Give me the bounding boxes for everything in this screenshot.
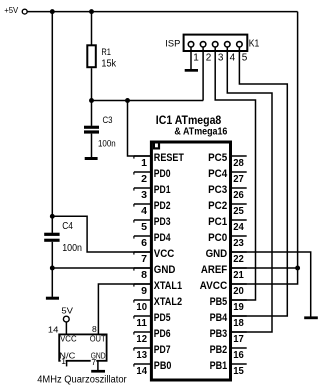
- connector K1 ISP box: [184, 35, 248, 51]
- svg-text:21: 21: [233, 270, 244, 281]
- svg-text:3: 3: [141, 190, 147, 201]
- svg-text:8: 8: [92, 324, 97, 334]
- svg-text:6: 6: [141, 238, 147, 249]
- svg-text:PC2: PC2: [208, 200, 227, 212]
- svg-text:OUT: OUT: [90, 334, 106, 343]
- label oscillator pin 7: [91, 359, 97, 365]
- svg-text:1: 1: [141, 158, 147, 169]
- svg-text:C3: C3: [103, 115, 113, 126]
- node +5V / left drop junction: [50, 9, 55, 14]
- svg-text:XTAL1: XTAL1: [154, 280, 182, 292]
- node R1 / C3 junction: [89, 98, 94, 103]
- svg-text:VCC: VCC: [154, 248, 175, 260]
- svg-text:4MHz Quarzoszillator: 4MHz Quarzoszillator: [37, 375, 127, 386]
- wire GND pin 22 to ground: [232, 252, 311, 317]
- svg-text:10: 10: [136, 302, 147, 313]
- node GND row junction: [50, 266, 55, 271]
- svg-text:15: 15: [233, 366, 244, 377]
- svg-text:PB1: PB1: [210, 360, 228, 372]
- node +5V / R1 junction: [89, 9, 94, 14]
- pin 21 AREF stub: [232, 267, 247, 269]
- ground bar right: [304, 316, 318, 319]
- svg-text:16: 16: [233, 350, 244, 361]
- svg-text:PD2: PD2: [154, 200, 171, 212]
- pin 25 PC2 stub: [232, 203, 247, 205]
- svg-text:PD6: PD6: [154, 328, 171, 340]
- wire +5V top rail: [27, 11, 297, 13]
- svg-text:1: 1: [61, 356, 66, 366]
- svg-text:PC3: PC3: [208, 184, 227, 196]
- wire VCC tap to pin 7: [52, 216, 150, 252]
- wire oscillator OUT pin 8 to XTAL1 pin 9: [98, 284, 150, 334]
- svg-text:C4: C4: [62, 221, 73, 232]
- svg-text:+5V: +5V: [4, 5, 18, 15]
- svg-text:XTAL2: XTAL2: [154, 296, 182, 308]
- node VCC tap junction: [50, 214, 55, 219]
- svg-text:28: 28: [233, 158, 244, 169]
- svg-text:22: 22: [233, 254, 244, 265]
- svg-text:26: 26: [233, 190, 244, 201]
- ground bar below C3: [85, 157, 98, 160]
- svg-text:AVCC: AVCC: [200, 280, 228, 292]
- ground bar oscillator: [91, 370, 105, 373]
- wire reset drop to pin 1: [128, 101, 151, 157]
- wire AREF pin 21 row: [232, 267, 298, 269]
- pin 16 PB2 stub: [232, 347, 247, 349]
- wire ISP pin 2 reset: [202, 47, 204, 100]
- svg-text:GND: GND: [154, 264, 176, 276]
- wire ISP pin 5 MISO to PB4 pin 18: [232, 47, 287, 316]
- svg-text:14: 14: [48, 324, 59, 334]
- svg-text:7: 7: [91, 357, 96, 367]
- svg-text:19: 19: [233, 302, 244, 313]
- pin 18 PB4 stub: [232, 315, 247, 317]
- IC IC1 ATmega8 body: [151, 142, 230, 380]
- svg-text:18: 18: [233, 318, 244, 329]
- wire +5V left drop: [51, 12, 53, 233]
- svg-text:12: 12: [136, 334, 147, 345]
- pin 2 PD0 stub: [134, 171, 150, 173]
- svg-text:20: 20: [233, 286, 244, 297]
- wire ISP pin 3 SCK to PB5 pin 19: [215, 47, 255, 300]
- svg-text:3: 3: [218, 53, 224, 64]
- wire R1 bottom: [91, 68, 93, 100]
- pin 23 PC0 stub: [232, 235, 247, 237]
- svg-text:5: 5: [141, 222, 147, 233]
- pin 3 PD1 stub: [134, 187, 150, 189]
- svg-text:1: 1: [193, 53, 199, 64]
- svg-text:13: 13: [136, 350, 147, 361]
- svg-text:& ATmega16: & ATmega16: [174, 126, 227, 138]
- svg-text:PD5: PD5: [154, 312, 171, 324]
- svg-text:7: 7: [141, 254, 147, 265]
- svg-text:GND: GND: [206, 248, 228, 260]
- connector K1 pin 2 circle: [200, 42, 206, 48]
- wire oscillator N/C stub pin 1: [66, 362, 68, 367]
- svg-text:RESET: RESET: [154, 152, 184, 164]
- pin 15 PB1 stub: [232, 363, 247, 365]
- svg-text:PD7: PD7: [154, 344, 171, 356]
- svg-text:24: 24: [233, 222, 244, 233]
- svg-text:5V: 5V: [61, 305, 73, 315]
- capacitor C4: [44, 233, 59, 242]
- svg-text:25: 25: [233, 206, 244, 217]
- svg-text:PD0: PD0: [154, 168, 171, 180]
- pin 13 PD7 stub: [134, 347, 150, 349]
- svg-text:PC5: PC5: [208, 152, 227, 164]
- svg-text:5: 5: [242, 53, 248, 64]
- wire C3 bottom: [91, 134, 93, 158]
- svg-text:15k: 15k: [101, 59, 117, 70]
- svg-text:2: 2: [206, 53, 212, 64]
- pin 10 XTAL2 stub: [134, 299, 150, 301]
- ground bar below C4: [46, 297, 59, 300]
- pin 17 PB3 stub: [232, 331, 247, 333]
- pin 26 PC3 stub: [232, 187, 247, 189]
- wire ISP pin 4 MOSI to PB3 pin 17: [227, 47, 272, 332]
- svg-text:PB0: PB0: [154, 360, 172, 372]
- wire oscillator GND pin 7: [97, 362, 99, 371]
- svg-text:PC4: PC4: [208, 168, 228, 180]
- svg-text:PC0: PC0: [208, 232, 227, 244]
- svg-text:9: 9: [141, 286, 147, 297]
- svg-text:27: 27: [233, 174, 244, 185]
- svg-text:11: 11: [136, 318, 147, 329]
- wire C4 bottom: [51, 242, 53, 297]
- svg-text:AREF: AREF: [201, 264, 228, 276]
- pin 12 PD6 stub: [134, 331, 150, 333]
- svg-text:100n: 100n: [98, 139, 116, 150]
- +5V terminal circle: [22, 9, 27, 14]
- svg-text:PD1: PD1: [154, 184, 171, 196]
- pin 8 GND stub: [134, 267, 150, 269]
- pin 9 XTAL1 stub: [134, 283, 150, 285]
- svg-text:PC1: PC1: [208, 216, 227, 228]
- svg-text:PD4: PD4: [154, 232, 171, 244]
- wire GND row to pin 8: [52, 267, 150, 269]
- wire reset rail: [92, 100, 204, 102]
- pin 27 PC4 stub: [232, 171, 247, 173]
- ground bar ISP pin 1: [185, 69, 198, 72]
- pin 20 AVCC stub: [232, 283, 247, 285]
- svg-text:R1: R1: [101, 47, 111, 58]
- pin 11 PD5 stub: [134, 315, 150, 317]
- pin 14 PB0 stub: [134, 363, 150, 365]
- pin 24 PC1 stub: [232, 219, 247, 221]
- label oscillator pin 1: [61, 359, 66, 364]
- connector K1 pin 1 circle: [188, 42, 194, 48]
- svg-text:PD3: PD3: [154, 216, 171, 228]
- pin 22 GND stub: [232, 251, 247, 253]
- wire ISP pin 1 to ground: [190, 47, 192, 69]
- pin 1 RESET stub: [134, 155, 150, 157]
- wire +5V right bus to AVCC pin 20: [232, 12, 298, 284]
- svg-text:100n: 100n: [62, 243, 82, 254]
- capacitor C3: [84, 126, 99, 134]
- pin 6 PD4 stub: [134, 235, 150, 237]
- pin 7 VCC stub: [134, 251, 150, 253]
- svg-text:23: 23: [233, 238, 244, 249]
- svg-text:PB3: PB3: [210, 328, 228, 340]
- node AREF / +5V bus junction: [295, 266, 300, 271]
- svg-text:17: 17: [233, 334, 244, 345]
- svg-text:PB5: PB5: [210, 296, 228, 308]
- pin 19 PB5 stub: [232, 299, 247, 301]
- terminal circle oscillator 5V: [63, 316, 69, 322]
- wire oscillator VCC pin 14: [65, 322, 67, 334]
- connector K1 pin 5 circle: [237, 42, 243, 48]
- pin 4 PD2 stub: [134, 203, 150, 205]
- svg-text:4: 4: [230, 53, 236, 64]
- svg-text:K1: K1: [249, 37, 260, 49]
- svg-text:4: 4: [141, 206, 147, 217]
- resistor R1: [87, 45, 96, 67]
- svg-text:PB4: PB4: [210, 312, 228, 324]
- connector K1 pin 3 circle: [212, 42, 218, 48]
- pin 28 PC5 stub: [232, 155, 247, 157]
- oscillator X1 box: [59, 334, 106, 360]
- svg-text:ISP: ISP: [165, 39, 180, 50]
- svg-text:VCC: VCC: [60, 335, 77, 344]
- pin 5 PD3 stub: [134, 219, 150, 221]
- svg-text:8: 8: [141, 270, 147, 281]
- svg-text:PB2: PB2: [210, 344, 228, 356]
- svg-text:2: 2: [141, 174, 147, 185]
- connector K1 pin 4 circle: [225, 42, 231, 48]
- wire C3 top: [91, 101, 93, 126]
- wire R1 top: [91, 12, 93, 45]
- svg-text:14: 14: [136, 366, 147, 377]
- IC pin-1 notch square: [154, 142, 159, 149]
- node reset drop junction: [125, 98, 130, 103]
